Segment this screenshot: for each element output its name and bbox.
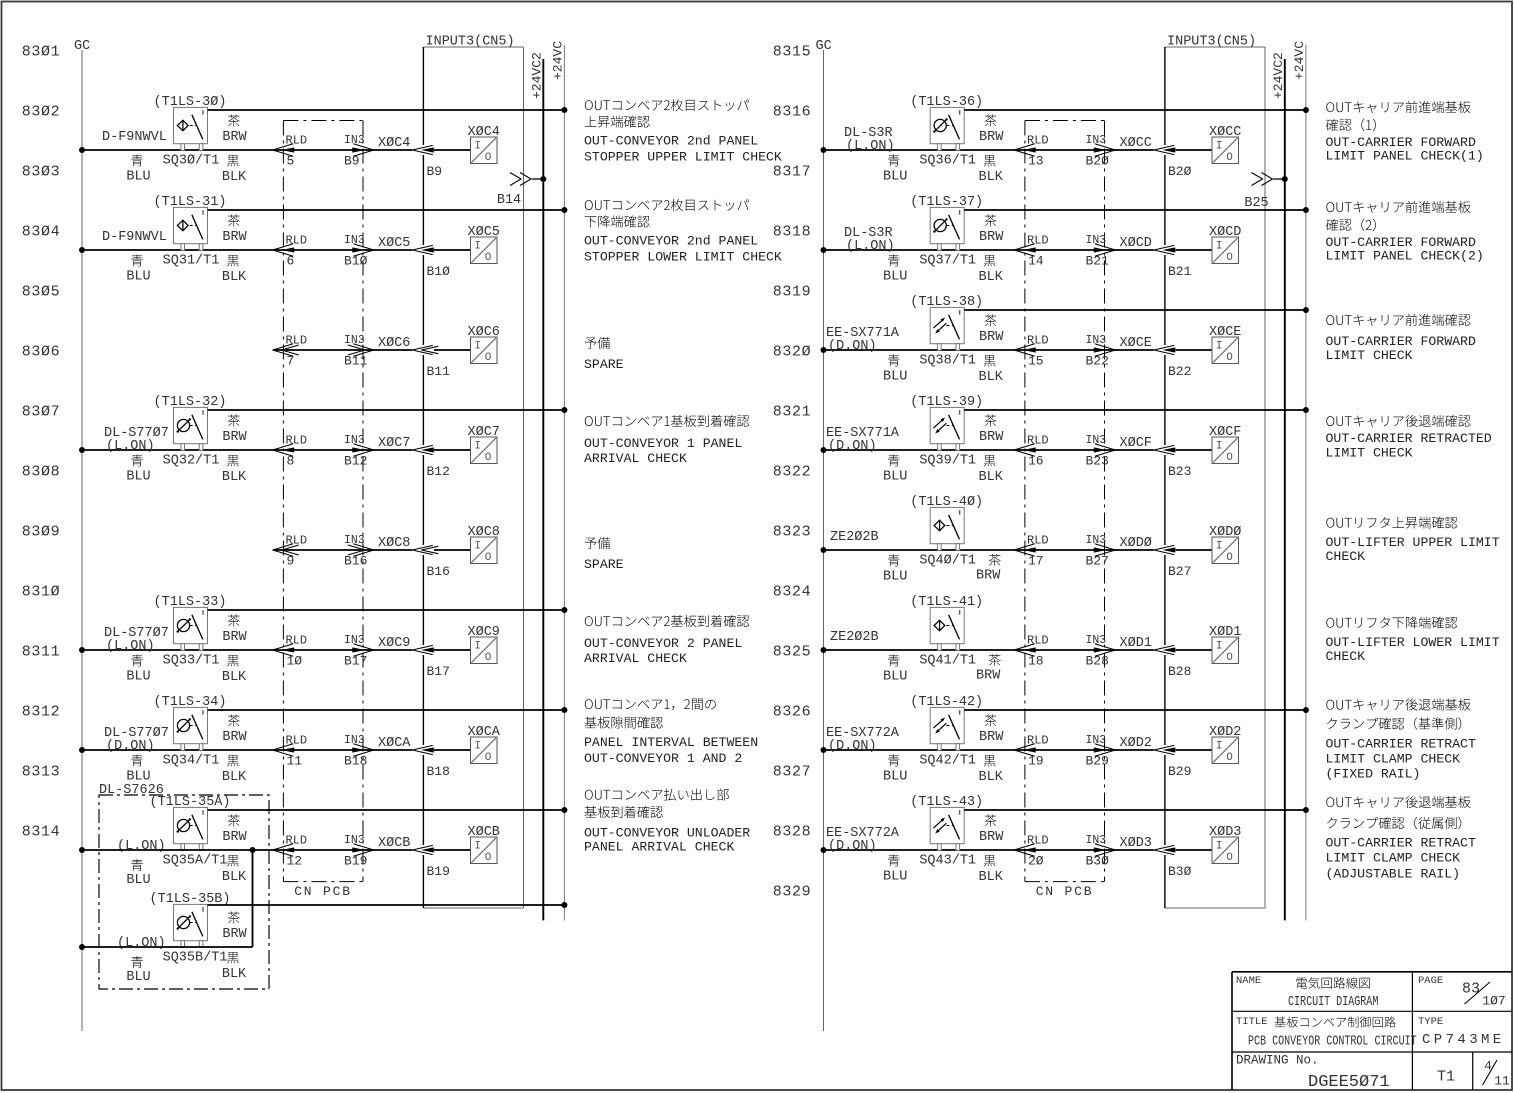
svg-text:BRW: BRW [979, 830, 1004, 845]
spare wire RLD-IN3 (no switch) [0, 0, 1, 1]
junction dot on +24VC [1303, 407, 1309, 413]
junction dot on GC at line y=250 [79, 247, 85, 253]
junction dot on +24VC [1303, 707, 1309, 713]
svg-text:OUT-LIFTER LOWER LIMIT: OUT-LIFTER LOWER LIMIT [1326, 635, 1500, 650]
net +24VC2 bus [530, 52, 545, 920]
svg-text:I: I [1216, 841, 1223, 853]
wire into I/O box [1176, 449, 1213, 451]
svg-text:(T1LS-33): (T1LS-33) [154, 595, 227, 610]
svg-text:OUT-LIFTER UPPER LIMIT: OUT-LIFTER UPPER LIMIT [1326, 535, 1500, 550]
svg-text:(D.ON): (D.ON) [106, 739, 155, 754]
net +24VC2 bus [1271, 52, 1286, 920]
junction dot on GC at line y=750 [79, 747, 85, 753]
device name D-F9NWVL [102, 230, 167, 245]
svg-text:XØD1: XØD1 [1209, 625, 1241, 640]
device name DL-S7707 [104, 626, 169, 654]
description text row y=350 (right) [1326, 314, 1476, 363]
description text row y=550 (left) [584, 537, 624, 572]
svg-text:SQ35A/T1: SQ35A/T1 [163, 853, 228, 868]
I/O point X0C4 [468, 125, 500, 164]
svg-text:B19: B19 [344, 854, 367, 869]
svg-text:B17: B17 [344, 654, 367, 669]
connector IN3 pin B16 [344, 534, 374, 569]
svg-text:XØD3: XØD3 [1209, 825, 1241, 840]
svg-text:GC: GC [816, 39, 832, 54]
svg-text:O: O [1226, 252, 1233, 264]
wire SQ30 top to +24VC bus [208, 109, 565, 111]
connector RLD pin 9 [273, 533, 307, 568]
wire SQ31 top to +24VC bus [208, 209, 565, 211]
connector RLD pin 13 [1014, 133, 1048, 168]
wire color labels SQ40 [883, 554, 1001, 584]
device name DL-S3R [844, 126, 895, 154]
svg-text:BRW: BRW [222, 630, 247, 645]
title block DRAWING No cell [1236, 1054, 1510, 1093]
svg-text:B21: B21 [1168, 264, 1192, 279]
description text row y=450 (left) [584, 415, 749, 466]
wire RLD to IN3 [1014, 349, 1154, 351]
svg-text:SQ32/T1: SQ32/T1 [163, 453, 220, 468]
svg-text:12: 12 [287, 854, 303, 869]
limit switch SQ37/T1 (T1LS-37) [910, 195, 983, 269]
svg-text:BLU: BLU [883, 369, 907, 384]
svg-text:(D.ON): (D.ON) [828, 839, 877, 854]
svg-text:SQ4Ø/T1: SQ4Ø/T1 [919, 553, 976, 568]
svg-text:(T1LS-34): (T1LS-34) [154, 695, 227, 710]
svg-text:(D.ON): (D.ON) [828, 339, 877, 354]
svg-text:B9: B9 [427, 164, 443, 179]
wire RLD to IN3 [1014, 249, 1154, 251]
title block NAME cell [1236, 975, 1378, 1010]
svg-text:8314: 8314 [22, 823, 60, 840]
limit switch SQ33/T1 (T1LS-33) [154, 595, 227, 669]
svg-text:BLU: BLU [883, 469, 907, 484]
description text row y=350 (left) [584, 337, 624, 372]
wire RLD to IN3 [1014, 549, 1154, 551]
limit switch SQ36/T1 (T1LS-36) [910, 95, 983, 168]
wire SQ35B top to +24VC bus [208, 904, 565, 906]
svg-text:XØCC: XØCC [1209, 125, 1241, 140]
svg-text:TYPE: TYPE [1418, 1016, 1443, 1028]
svg-text:BLK: BLK [222, 470, 247, 485]
svg-text:SQ39/T1: SQ39/T1 [919, 453, 976, 468]
svg-text:BLU: BLU [126, 469, 150, 484]
limit switch SQ32/T1 (T1LS-32) [154, 395, 227, 469]
description text row y=850 (left) [584, 788, 750, 854]
connector RLD pin 15 [1014, 333, 1048, 368]
svg-text:B22: B22 [1168, 364, 1191, 379]
wire color labels SQ30 [126, 115, 247, 185]
pin label B27 [1168, 564, 1191, 579]
device name ZE202B [830, 530, 879, 545]
svg-text:ARRIVAL CHECK: ARRIVAL CHECK [584, 451, 687, 466]
I/O point X0D3 [1209, 825, 1241, 864]
I/O point X0C8 [468, 525, 500, 564]
connector IN3 pin B22 [1086, 334, 1116, 369]
svg-text:BRW: BRW [222, 430, 247, 445]
svg-text:XØCC: XØCC [1120, 136, 1152, 151]
wire color labels SQ42 [883, 715, 1004, 785]
connector into INPUT3 (B29) [1154, 745, 1176, 754]
svg-text:O: O [485, 152, 492, 164]
junction dot on +24VC [561, 807, 567, 813]
svg-text:SQ3Ø/T1: SQ3Ø/T1 [163, 153, 220, 168]
wire SQ37 top to +24VC bus [964, 209, 1306, 211]
wire into I/O box [434, 449, 471, 451]
connector into INPUT3 (B20) [1154, 145, 1176, 154]
svg-text:5: 5 [287, 154, 295, 169]
svg-text:XØC5: XØC5 [378, 236, 410, 251]
svg-text:SQ34/T1: SQ34/T1 [163, 753, 220, 768]
svg-text:B29: B29 [1086, 754, 1109, 769]
svg-text:BRW: BRW [979, 330, 1004, 345]
svg-text:(T1LS-3Ø): (T1LS-3Ø) [154, 95, 227, 110]
svg-text:I: I [474, 341, 481, 353]
svg-text:83Ø8: 83Ø8 [22, 463, 60, 480]
spare wire RLD-IN3 (no switch) [0, 0, 1, 1]
connector IN3 pin B23 [1086, 434, 1116, 469]
wire into I/O box [434, 849, 471, 851]
connector into INPUT3 (B16) [412, 545, 438, 554]
svg-text:SQ36/T1: SQ36/T1 [919, 153, 976, 168]
svg-text:1Ø: 1Ø [287, 654, 303, 669]
svg-text:8327: 8327 [773, 763, 811, 780]
junction dot on +24VC [1303, 107, 1309, 113]
svg-text:SQ35B/T1: SQ35B/T1 [163, 950, 228, 965]
svg-text:LIMIT CHECK: LIMIT CHECK [1326, 445, 1413, 460]
svg-text:83Ø2: 83Ø2 [22, 103, 60, 120]
connector IN3 pin B18 [344, 734, 374, 769]
pin label B20 [1168, 164, 1192, 179]
net label X0D0 [1120, 536, 1152, 551]
pin label B28 [1168, 664, 1191, 679]
svg-text:IN3: IN3 [1086, 734, 1107, 747]
svg-text:OUT-CONVEYOR 2nd PANEL: OUT-CONVEYOR 2nd PANEL [584, 133, 758, 148]
wire color labels SQ33 [126, 615, 247, 685]
junction dot on +24VC [1303, 207, 1309, 213]
svg-text:XØCD: XØCD [1209, 225, 1241, 240]
pin label B23 [1168, 464, 1191, 479]
svg-text:BLU: BLU [883, 669, 907, 684]
svg-text:LIMIT PANEL CHECK(1): LIMIT PANEL CHECK(1) [1326, 148, 1484, 163]
svg-text:SQ33/T1: SQ33/T1 [163, 653, 220, 668]
connector IN3 pin B9 [344, 134, 374, 169]
svg-text:B2Ø: B2Ø [1168, 164, 1192, 179]
svg-text:2Ø: 2Ø [1028, 854, 1044, 869]
svg-text:XØC4: XØC4 [378, 136, 410, 151]
connector RLD pin 5 [273, 133, 307, 168]
svg-text:(T1LS-32): (T1LS-32) [154, 395, 227, 410]
svg-text:I: I [1216, 741, 1223, 753]
description text row y=250 (left) [584, 199, 782, 264]
svg-text:8326: 8326 [773, 703, 811, 720]
svg-text:XØCA: XØCA [468, 725, 501, 740]
svg-text:LIMIT PANEL CHECK(2): LIMIT PANEL CHECK(2) [1326, 248, 1484, 263]
svg-text:8317: 8317 [773, 163, 811, 180]
svg-text:19: 19 [1028, 754, 1044, 769]
wire color labels SQ37 [883, 215, 1004, 285]
svg-text:8328: 8328 [773, 823, 811, 840]
pin label B11 [427, 364, 451, 379]
wire color labels SQ43 [883, 815, 1004, 885]
svg-text:O: O [1226, 552, 1233, 564]
device name DL-S3R [844, 226, 895, 254]
svg-text:8316: 8316 [773, 103, 811, 120]
pin label B29 [1168, 764, 1191, 779]
svg-text:PCB CONVEYOR CONTROL CIRCUIT: PCB CONVEYOR CONTROL CIRCUIT [1248, 1033, 1417, 1049]
description text row y=150 (left) [584, 99, 782, 164]
svg-text:BRW: BRW [979, 230, 1004, 245]
net label X0C6 [378, 336, 410, 351]
svg-text:XØDØ: XØDØ [1120, 536, 1152, 551]
connector RLD pin 18 [1014, 633, 1048, 668]
connector into INPUT3 (B19) [412, 845, 434, 854]
wire RLD to IN3 [273, 449, 413, 451]
svg-text:BLK: BLK [222, 170, 247, 185]
junction dot on +24VC [561, 707, 567, 713]
connector RLD pin 10 [273, 633, 307, 668]
net label X0CD [1120, 236, 1152, 251]
svg-text:ZE2Ø2B: ZE2Ø2B [830, 530, 879, 545]
svg-text:RLD: RLD [286, 333, 308, 347]
svg-text:(L.ON): (L.ON) [117, 936, 166, 951]
svg-text:BLU: BLU [883, 569, 907, 584]
connector RLD pin 20 [1014, 833, 1048, 868]
I/O point X0C9 [468, 625, 500, 664]
connector INPUT3(CN5) box [1165, 47, 1265, 908]
enclosure dash-dot box around SQ35A/SQ35B [99, 795, 269, 989]
svg-text:15: 15 [1028, 354, 1044, 369]
svg-text:8329: 8329 [773, 883, 811, 900]
svg-text:I: I [1216, 141, 1223, 153]
svg-text:SQ41/T1: SQ41/T1 [919, 653, 976, 668]
svg-text:XØC8: XØC8 [468, 525, 500, 540]
connector into INPUT3 (B21) [1154, 245, 1176, 254]
svg-text:CHECK: CHECK [1326, 649, 1366, 664]
svg-text:(T1LS-42): (T1LS-42) [910, 695, 983, 710]
net label X0D1 [1120, 636, 1152, 651]
wire RLD to IN3 [273, 849, 413, 851]
svg-text:1Ø7: 1Ø7 [1482, 994, 1505, 1009]
svg-text:XØC5: XØC5 [468, 225, 500, 240]
connector IN3 pin B10 [344, 234, 374, 269]
svg-text:SQ31/T1: SQ31/T1 [163, 253, 220, 268]
device name ZE202B [830, 630, 879, 645]
svg-text:I: I [1216, 341, 1223, 353]
connector RLD pin 8 [273, 433, 307, 468]
svg-text:O: O [1226, 152, 1233, 164]
svg-text:IN3: IN3 [1086, 234, 1107, 247]
connector RLD pin 14 [1014, 233, 1048, 268]
connector IN3 pin B30 [1086, 834, 1116, 869]
net label X0C4 [378, 136, 410, 151]
limit switch SQ41/T1 (T1LS-41) [910, 595, 983, 669]
svg-text:RLD: RLD [286, 633, 308, 647]
wire SQ35A top to +24VC bus [208, 809, 565, 811]
wire RLD to IN3 [1014, 449, 1154, 451]
svg-text:O: O [485, 652, 492, 664]
svg-text:(T1LS-31): (T1LS-31) [154, 195, 227, 210]
svg-text:7: 7 [287, 354, 295, 369]
connector into INPUT3 (B18) [412, 745, 434, 754]
svg-text:(L.ON): (L.ON) [117, 839, 166, 854]
wire SQ38 row from GC to RLD connector [824, 349, 1015, 351]
svg-text:RLD: RLD [1027, 733, 1049, 747]
svg-text:BLU: BLU [883, 769, 907, 784]
wire SQ32 row from GC to RLD connector [82, 449, 273, 451]
svg-text:BLK: BLK [979, 370, 1004, 385]
svg-text:B18: B18 [427, 764, 450, 779]
wire SQ41 row from GC to RLD connector [824, 649, 1015, 651]
svg-text:831Ø: 831Ø [22, 583, 60, 600]
svg-text:B28: B28 [1086, 654, 1109, 669]
svg-text:IN3: IN3 [1086, 834, 1107, 847]
svg-text:I: I [474, 441, 481, 453]
svg-text:83Ø7: 83Ø7 [22, 403, 60, 420]
svg-text:SQ43/T1: SQ43/T1 [919, 853, 976, 868]
device name DL-S7707 [104, 726, 169, 754]
svg-text:8315: 8315 [773, 43, 811, 60]
connector RLD pin 11 [273, 733, 307, 768]
svg-text:XØD3: XØD3 [1120, 836, 1152, 851]
svg-text:(T1LS-36): (T1LS-36) [910, 95, 983, 110]
junction dot on GC at y=947 [79, 944, 85, 950]
svg-text:XØC8: XØC8 [378, 536, 410, 551]
connector into INPUT3 (B22) [1154, 345, 1176, 354]
svg-text:RLD: RLD [1027, 133, 1049, 147]
junction dot on GC at line y=150 [79, 147, 85, 153]
net GC bus [74, 39, 90, 1031]
svg-text:XØCB: XØCB [468, 825, 500, 840]
line number labels 8301-8314 [22, 43, 60, 840]
svg-text:83: 83 [1462, 980, 1480, 997]
svg-text:RLD: RLD [1027, 433, 1049, 447]
description text row y=750 (left) [584, 699, 758, 766]
svg-text:B25: B25 [1244, 196, 1268, 211]
I/O point X0C5 [468, 225, 500, 264]
svg-text:PANEL INTERVAL BETWEEN: PANEL INTERVAL BETWEEN [584, 735, 758, 750]
svg-text:BRW: BRW [222, 130, 247, 145]
svg-text:OUT-CARRIER RETRACTED: OUT-CARRIER RETRACTED [1326, 431, 1492, 446]
svg-text:INPUT3(CN5): INPUT3(CN5) [426, 34, 515, 49]
svg-text:NAME: NAME [1236, 975, 1261, 987]
svg-text:STOPPER UPPER LIMIT CHECK: STOPPER UPPER LIMIT CHECK [584, 149, 782, 164]
svg-text:8324: 8324 [773, 583, 811, 600]
svg-text:B1Ø: B1Ø [344, 254, 368, 269]
device name EE-SX772A [826, 826, 900, 854]
svg-text:(L.ON): (L.ON) [846, 139, 895, 154]
svg-text:LIMIT CLAMP CHECK: LIMIT CLAMP CHECK [1326, 751, 1461, 766]
I/O point X0CC [1209, 125, 1241, 164]
wire SQ31 row from GC to RLD connector [82, 249, 273, 251]
svg-text:OUT-CARRIER RETRACT: OUT-CARRIER RETRACT [1326, 835, 1476, 850]
wire RLD to IN3 [1014, 149, 1154, 151]
svg-text:BLU: BLU [126, 970, 150, 985]
svg-text:RLD: RLD [1027, 533, 1049, 547]
junction dot on +24VC [1303, 307, 1309, 313]
junction dot on GC at line y=150 [821, 147, 827, 153]
junction dot on GC at line y=450 [79, 447, 85, 453]
svg-text:BRW: BRW [222, 830, 247, 845]
svg-text:B12: B12 [344, 454, 367, 469]
svg-text:83Ø1: 83Ø1 [22, 43, 60, 60]
junction dot on +24VC [561, 902, 567, 908]
wire SQ33 top to +24VC bus [208, 609, 565, 611]
wire color labels SQ36 [883, 115, 1004, 185]
connector IN3 pin B21 [1086, 234, 1116, 269]
svg-text:O: O [1226, 852, 1233, 864]
svg-text:BLK: BLK [979, 170, 1004, 185]
wire SQ40 row from GC to RLD connector [824, 549, 1015, 551]
svg-text:XØC4: XØC4 [468, 125, 500, 140]
svg-text:B27: B27 [1086, 554, 1109, 569]
wire RLD to IN3 [1014, 849, 1154, 851]
net GC bus [816, 39, 832, 1031]
svg-text:DGEE5Ø71: DGEE5Ø71 [1308, 1073, 1390, 1092]
wire RLD to IN3 [273, 649, 413, 651]
svg-text:RLD: RLD [286, 733, 308, 747]
description text row y=150 (right) [1326, 101, 1484, 163]
limit switch SQ43/T1 (T1LS-43) [910, 795, 983, 869]
wire SQ36 row from GC to RLD connector [824, 149, 1015, 151]
wire RLD to IN3 [273, 749, 413, 751]
wire SQ39 row from GC to RLD connector [824, 449, 1015, 451]
svg-text:XØC9: XØC9 [468, 625, 500, 640]
svg-text:(ADJUSTABLE RAIL): (ADJUSTABLE RAIL) [1326, 866, 1461, 881]
connector IN3 pin B27 [1086, 534, 1116, 569]
svg-text:B16: B16 [344, 554, 367, 569]
svg-text:(T1LS-38): (T1LS-38) [910, 295, 983, 310]
wire SQ30 row from GC to RLD connector [82, 149, 273, 151]
svg-text:B23: B23 [1168, 464, 1191, 479]
svg-text:(FIXED RAIL): (FIXED RAIL) [1326, 766, 1421, 781]
connector RLD pin 6 [273, 233, 307, 268]
wire into I/O box [1176, 249, 1213, 251]
I/O point X0C6 [468, 325, 500, 364]
pin label B16 [427, 564, 450, 579]
svg-text:RLD: RLD [286, 833, 308, 847]
I/O point X0C7 [468, 425, 500, 464]
svg-text:BRW: BRW [979, 730, 1004, 745]
connector into INPUT3 (B23) [1154, 445, 1176, 454]
svg-text:IN3: IN3 [344, 134, 365, 147]
svg-text:(L.ON): (L.ON) [106, 639, 155, 654]
description text row y=650 (right) [1326, 616, 1500, 663]
wire into I/O box [1176, 749, 1213, 751]
svg-text:OUT-CONVEYOR 2 PANEL: OUT-CONVEYOR 2 PANEL [584, 636, 742, 651]
wire RLD to IN3 [273, 249, 413, 251]
svg-text:IN3: IN3 [344, 334, 365, 347]
wire color labels SQ35B [126, 912, 247, 985]
svg-text:I: I [474, 141, 481, 153]
svg-text:O: O [485, 452, 492, 464]
svg-text:XØD2: XØD2 [1120, 736, 1152, 751]
connector IN3 pin B17 [344, 634, 374, 669]
svg-text:IN3: IN3 [344, 534, 365, 547]
wire SQ38 top to +24VC bus [964, 309, 1306, 311]
svg-text:B28: B28 [1168, 664, 1191, 679]
svg-text:I: I [474, 241, 481, 253]
I/O point X0CE [1209, 325, 1241, 364]
svg-text:(L.ON): (L.ON) [106, 439, 155, 454]
wire color labels SQ34 [126, 715, 247, 785]
wire SQ39 top to +24VC bus [964, 409, 1306, 411]
connector IN3 pin B29 [1086, 734, 1116, 769]
svg-text:BRW: BRW [222, 230, 247, 245]
svg-text:(T1LS-37): (T1LS-37) [910, 195, 983, 210]
pin label B19 [427, 864, 450, 879]
svg-text:O: O [485, 352, 492, 364]
